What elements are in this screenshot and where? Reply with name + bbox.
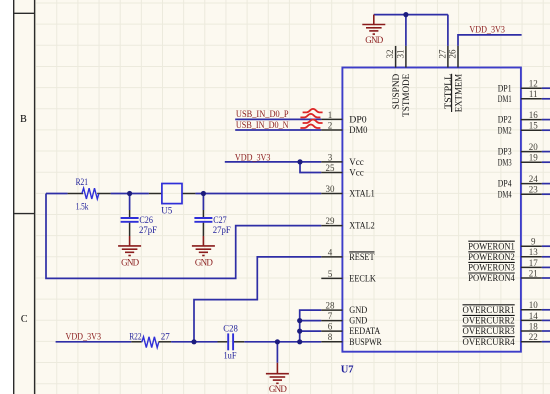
- svg-text:15: 15: [529, 121, 539, 131]
- svg-text:BUSPWR: BUSPWR: [349, 337, 382, 347]
- svg-text:U5: U5: [161, 206, 172, 216]
- svg-text:GND: GND: [195, 257, 214, 267]
- svg-text:1: 1: [328, 110, 333, 120]
- svg-text:VDD_3V3: VDD_3V3: [66, 332, 102, 342]
- svg-text:DP4: DP4: [498, 179, 512, 189]
- svg-text:DM4: DM4: [498, 189, 512, 199]
- svg-text:EXTMEM: EXTMEM: [453, 74, 463, 113]
- svg-text:DM1: DM1: [498, 94, 512, 104]
- svg-text:RESET: RESET: [349, 252, 375, 262]
- svg-text:C28: C28: [223, 323, 238, 333]
- svg-text:7: 7: [328, 311, 333, 321]
- svg-text:GND: GND: [365, 35, 384, 45]
- svg-text:20: 20: [529, 142, 539, 152]
- svg-text:31: 31: [395, 50, 405, 59]
- svg-text:Vcc: Vcc: [349, 168, 364, 178]
- svg-text:XTAL1: XTAL1: [349, 189, 375, 199]
- svg-text:5: 5: [328, 269, 333, 279]
- svg-text:16: 16: [529, 110, 539, 120]
- svg-text:23: 23: [529, 185, 539, 195]
- svg-text:POWERON4: POWERON4: [468, 273, 515, 283]
- svg-text:GND: GND: [269, 384, 288, 394]
- svg-text:GND: GND: [349, 305, 367, 315]
- svg-text:14: 14: [529, 311, 539, 321]
- svg-text:B: B: [20, 114, 27, 125]
- svg-text:C26: C26: [139, 215, 153, 225]
- svg-text:GND: GND: [349, 316, 367, 326]
- svg-text:8: 8: [328, 332, 333, 342]
- svg-text:24: 24: [529, 174, 539, 184]
- svg-text:USB_IN_D0_P: USB_IN_D0_P: [236, 109, 289, 119]
- svg-text:POWERON3: POWERON3: [468, 263, 515, 273]
- svg-text:EEDATA: EEDATA: [349, 326, 380, 336]
- svg-text:DM2: DM2: [498, 125, 512, 135]
- svg-text:DP0: DP0: [349, 115, 367, 125]
- svg-text:DM3: DM3: [498, 157, 512, 167]
- svg-text:OVERCURR4: OVERCURR4: [463, 337, 516, 347]
- svg-text:9: 9: [531, 237, 536, 247]
- svg-text:26: 26: [447, 49, 457, 59]
- svg-text:XTAL2: XTAL2: [349, 221, 375, 231]
- svg-text:29: 29: [326, 216, 336, 226]
- svg-text:2: 2: [328, 120, 333, 130]
- svg-text:R21: R21: [76, 177, 88, 187]
- svg-text:13: 13: [529, 247, 539, 257]
- svg-text:DP1: DP1: [498, 83, 512, 93]
- svg-text:OVERCURR2: OVERCURR2: [463, 316, 515, 326]
- svg-text:GND: GND: [121, 257, 140, 267]
- svg-text:DM0: DM0: [349, 125, 368, 135]
- svg-text:4: 4: [328, 247, 333, 257]
- svg-text:6: 6: [328, 322, 333, 332]
- svg-text:27: 27: [437, 49, 447, 59]
- svg-text:17: 17: [529, 258, 539, 268]
- svg-text:TSTMODE: TSTMODE: [401, 73, 411, 117]
- svg-text:28: 28: [326, 301, 336, 311]
- svg-text:30: 30: [326, 184, 336, 194]
- svg-text:27pF: 27pF: [139, 225, 157, 235]
- svg-text:POWERON1: POWERON1: [468, 241, 515, 251]
- svg-text:R22: R22: [129, 332, 141, 342]
- svg-text:21: 21: [529, 268, 538, 278]
- svg-text:U7: U7: [341, 364, 354, 375]
- svg-text:32: 32: [385, 50, 395, 59]
- svg-text:19: 19: [529, 153, 539, 163]
- svg-text:11: 11: [529, 89, 538, 99]
- svg-text:3: 3: [328, 152, 333, 162]
- svg-text:DP3: DP3: [498, 147, 512, 157]
- svg-text:OVERCURR1: OVERCURR1: [463, 305, 515, 315]
- svg-text:POWERON2: POWERON2: [468, 252, 515, 262]
- svg-text:10: 10: [529, 300, 539, 310]
- svg-text:25: 25: [326, 163, 336, 173]
- svg-text:VDD_3V3: VDD_3V3: [235, 152, 271, 162]
- svg-text:18: 18: [529, 321, 539, 331]
- svg-text:DP2: DP2: [498, 115, 512, 125]
- svg-text:C: C: [21, 314, 28, 325]
- svg-text:27: 27: [161, 332, 171, 342]
- svg-text:EECLK: EECLK: [349, 274, 376, 284]
- svg-text:22: 22: [529, 332, 538, 342]
- svg-text:1uF: 1uF: [224, 351, 237, 361]
- svg-text:12: 12: [529, 79, 538, 89]
- svg-text:SUSPND: SUSPND: [391, 73, 401, 109]
- svg-text:27pF: 27pF: [213, 225, 231, 235]
- svg-text:Vcc: Vcc: [349, 157, 364, 167]
- svg-text:C27: C27: [213, 215, 227, 225]
- svg-text:1.5k: 1.5k: [76, 201, 89, 211]
- svg-text:USB_IN_D0_N: USB_IN_D0_N: [236, 120, 289, 130]
- svg-text:OVERCURR3: OVERCURR3: [463, 326, 516, 336]
- svg-text:VDD_3V3: VDD_3V3: [469, 25, 505, 35]
